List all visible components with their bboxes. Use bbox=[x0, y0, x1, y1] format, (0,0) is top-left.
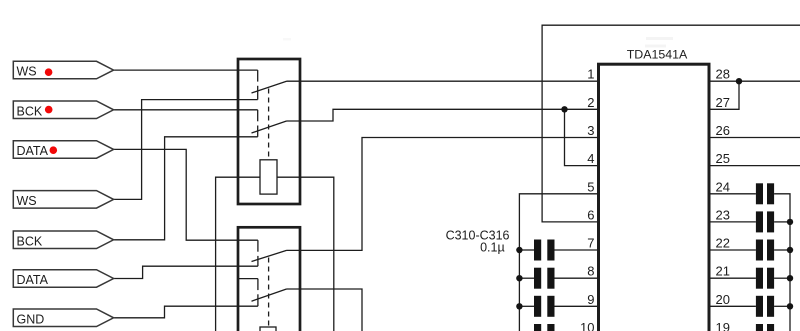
relay box K1 bbox=[238, 59, 300, 204]
flag GND bbox=[13, 309, 113, 327]
wire box2 edge to switch S2b top contact bbox=[238, 278, 258, 280]
flag BCK (red dot) bbox=[13, 101, 113, 119]
wire pin 26 to right edge bbox=[709, 137, 800, 139]
svg-text:DATA: DATA bbox=[17, 273, 49, 287]
flag WS bbox=[13, 191, 113, 209]
capacitor C on pin 21 bbox=[756, 268, 774, 289]
wire pin 21 cap leads bbox=[709, 277, 756, 279]
wire S2a output to pin 3 bbox=[287, 138, 599, 251]
svg-text:1: 1 bbox=[587, 67, 594, 82]
svg-text:7: 7 bbox=[587, 236, 594, 251]
junction node bus pin8 bbox=[516, 275, 522, 281]
junction node bus pin20 bbox=[787, 303, 793, 309]
junction node bus pin23 bbox=[787, 219, 793, 225]
svg-text:9: 9 bbox=[587, 292, 594, 307]
wire pin2 to pin4 bbox=[565, 109, 599, 165]
flag WS (red dot) bbox=[13, 61, 113, 79]
wire pin 5 and decoupling bus left bbox=[519, 194, 598, 331]
switch S1a bbox=[252, 70, 287, 100]
svg-text:BCK: BCK bbox=[17, 104, 43, 118]
junction node pin2/pin4 bbox=[561, 106, 567, 112]
flag BCK bbox=[13, 231, 113, 249]
capacitor C on pin 24 bbox=[756, 183, 774, 204]
capacitor C on pin 8 bbox=[534, 268, 555, 289]
ghost marks above IC bbox=[283, 38, 291, 41]
wire pin 8 cap leads bbox=[519, 277, 534, 279]
switch S1b bbox=[252, 110, 287, 137]
svg-text:TDA1541A: TDA1541A bbox=[627, 47, 688, 61]
switch S2a bbox=[252, 240, 287, 266]
svg-text:0.1µ: 0.1µ bbox=[480, 241, 505, 255]
svg-text:23: 23 bbox=[716, 207, 730, 222]
wire WS(dot) flag to switch S1a top contact bbox=[114, 69, 258, 71]
wire pin 24 cap leads and bus right bbox=[709, 193, 756, 195]
IC U1 TDA1541A body bbox=[599, 64, 710, 331]
wire BCK flag to switch S1b bottom contact bbox=[114, 137, 258, 240]
wire relay coil K1 left lead bbox=[216, 177, 260, 331]
wire pin 25 to right edge bbox=[709, 165, 800, 167]
wire pin 23 cap leads bbox=[709, 221, 756, 223]
relay coil K2 bbox=[260, 327, 276, 331]
relay coil K1 bbox=[260, 160, 277, 194]
actuator dashed line K2 bbox=[268, 258, 270, 328]
wire DATA flag to switch S2a bottom contact bbox=[114, 266, 258, 278]
capacitor C on pin 7 bbox=[534, 240, 555, 261]
svg-text:3: 3 bbox=[587, 123, 594, 138]
svg-text:24: 24 bbox=[716, 179, 730, 194]
wire pin 7 cap leads bbox=[519, 249, 534, 251]
wire WS flag to switch S1a bottom contact bbox=[114, 100, 258, 200]
wire pin 22 cap leads bbox=[709, 249, 756, 251]
svg-text:25: 25 bbox=[716, 151, 730, 166]
svg-text:WS: WS bbox=[17, 65, 37, 79]
capacitor C on pin 19 (clipped) bbox=[756, 324, 774, 331]
wire GND flag to switch S2b bottom contact bbox=[114, 306, 258, 318]
svg-text:2: 2 bbox=[587, 95, 594, 110]
wire BCK(dot) flag to switch S1b top contact bbox=[114, 109, 258, 111]
switch S2b bbox=[252, 279, 287, 307]
flag DATA (red dot) bbox=[13, 141, 113, 159]
actuator dashed line K1 bbox=[268, 89, 270, 160]
wire S2b output down off-canvas bbox=[287, 289, 363, 331]
capacitor C on pin 22 bbox=[756, 240, 774, 261]
junction node bus pin21 bbox=[787, 275, 793, 281]
junction node bus pin9 bbox=[516, 303, 522, 309]
wire pin 28 to right edge bbox=[709, 80, 800, 82]
pin number labels right bbox=[716, 67, 730, 331]
svg-text:WS: WS bbox=[17, 194, 37, 208]
svg-text:20: 20 bbox=[716, 292, 730, 307]
capacitor C on pin 9 bbox=[534, 296, 555, 317]
wire pin 9 cap leads bbox=[519, 305, 534, 307]
svg-text:21: 21 bbox=[716, 264, 730, 279]
junction node pin28/pin27 bbox=[736, 78, 742, 84]
svg-text:6: 6 bbox=[587, 207, 594, 222]
capacitor C on pin 23 bbox=[756, 211, 774, 232]
svg-text:BCK: BCK bbox=[17, 234, 43, 248]
wire DATA(dot) flag to switch S2a top contact bbox=[114, 149, 258, 240]
svg-text:5: 5 bbox=[587, 179, 594, 194]
svg-text:8: 8 bbox=[587, 264, 594, 279]
junction node bus pin7 bbox=[516, 247, 522, 253]
svg-text:27: 27 bbox=[716, 95, 730, 110]
relay box K2 bbox=[238, 227, 300, 331]
wire S1b output to pin 2 bbox=[287, 109, 599, 121]
wire pin 28 to pin 27 bbox=[709, 81, 739, 109]
svg-text:GND: GND bbox=[17, 312, 45, 326]
svg-text:4: 4 bbox=[587, 151, 594, 166]
svg-text:19: 19 bbox=[716, 320, 730, 331]
wire pin 6 to top rail going right bbox=[542, 25, 800, 222]
junction node bus pin22 bbox=[787, 247, 793, 253]
capacitor C on pin 20 bbox=[756, 296, 774, 317]
svg-text:26: 26 bbox=[716, 123, 730, 138]
capacitor C on pin 10 (clipped) bbox=[534, 324, 555, 331]
wire relay coil K1 right lead bbox=[277, 177, 334, 331]
svg-text:28: 28 bbox=[716, 67, 730, 82]
wire pin 20 cap leads bbox=[709, 305, 756, 307]
svg-text:22: 22 bbox=[716, 236, 730, 251]
flag DATA bbox=[13, 270, 113, 288]
pin number labels left bbox=[580, 67, 594, 331]
svg-text:10: 10 bbox=[580, 320, 594, 331]
svg-text:DATA: DATA bbox=[17, 144, 49, 158]
wire S1a output to pin 1 bbox=[287, 80, 599, 82]
